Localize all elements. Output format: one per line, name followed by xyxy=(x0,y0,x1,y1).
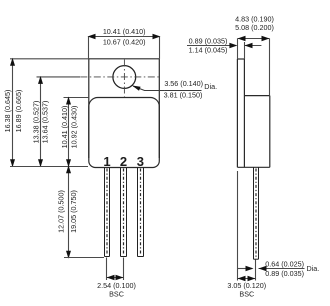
svg-text:16.89 (0.665): 16.89 (0.665) xyxy=(14,90,23,133)
svg-text:0.64 (0.025): 0.64 (0.025) xyxy=(265,260,304,269)
svg-text:10.41 (0.410): 10.41 (0.410) xyxy=(103,27,146,36)
side view pin xyxy=(254,167,259,259)
svg-text:3.56 (0.140): 3.56 (0.140) xyxy=(164,79,203,88)
svg-text:3: 3 xyxy=(137,154,144,169)
svg-text:2: 2 xyxy=(120,154,127,169)
svg-text:12.07 (0.500): 12.07 (0.500) xyxy=(57,190,66,233)
svg-text:3.81 (0.150): 3.81 (0.150) xyxy=(164,90,203,99)
pin 2 front xyxy=(121,168,127,257)
front view molded body (rounded) xyxy=(89,98,160,168)
svg-text:0.89 (0.035): 0.89 (0.035) xyxy=(265,269,304,278)
svg-text:0.89 (0.035): 0.89 (0.035) xyxy=(189,37,228,46)
svg-text:Dia.: Dia. xyxy=(307,264,320,273)
svg-text:1: 1 xyxy=(103,154,110,169)
svg-text:1.14 (0.045): 1.14 (0.045) xyxy=(189,46,228,55)
lead thickness dimension 0.64/0.89 xyxy=(238,171,305,281)
svg-text:19.05 (0.750): 19.05 (0.750) xyxy=(69,190,78,233)
pin 3 front xyxy=(138,168,144,257)
svg-text:5.08 (0.200): 5.08 (0.200) xyxy=(235,23,274,32)
left dimension 13.38/13.64 xyxy=(37,76,81,167)
left dimension 10.41/10.92 xyxy=(64,97,89,168)
svg-text:13.64 (0.537): 13.64 (0.537) xyxy=(41,101,50,144)
lead length dimension 12.07/19.05 xyxy=(64,165,104,259)
hole diameter callout 3.56/3.81 xyxy=(132,86,202,91)
svg-text:10.92 (0.430): 10.92 (0.430) xyxy=(69,106,78,149)
lead offset dimension 3.05 BSC xyxy=(238,276,256,282)
pin pitch dimension 2.54 BSC xyxy=(107,258,124,281)
side depth dimension 4.83/5.08 xyxy=(238,36,270,96)
tab thickness dimension 0.89/1.14 xyxy=(187,42,261,59)
svg-text:Dia.: Dia. xyxy=(204,82,217,91)
pin 1 front xyxy=(105,168,110,257)
svg-text:13.38 (0.527): 13.38 (0.527) xyxy=(32,101,41,144)
svg-text:10.41 (0.410): 10.41 (0.410) xyxy=(60,106,69,149)
svg-text:BSC: BSC xyxy=(109,289,124,298)
hole vertical centerline xyxy=(123,60,125,97)
top width dimension 10.41/10.67 xyxy=(88,34,161,59)
side view body xyxy=(237,96,269,168)
pin numbers xyxy=(103,154,144,169)
hole horizontal centerline xyxy=(79,76,159,78)
mounting hole xyxy=(113,66,136,89)
svg-text:16.38 (0.645): 16.38 (0.645) xyxy=(3,90,12,133)
left dimension 16.38/16.89 xyxy=(10,58,89,168)
svg-text:10.67 (0.420): 10.67 (0.420) xyxy=(103,38,146,47)
seating plane extension line xyxy=(10,166,88,168)
svg-text:BSC: BSC xyxy=(239,289,254,298)
side view tab xyxy=(237,59,244,167)
front view tab outline xyxy=(89,59,160,158)
